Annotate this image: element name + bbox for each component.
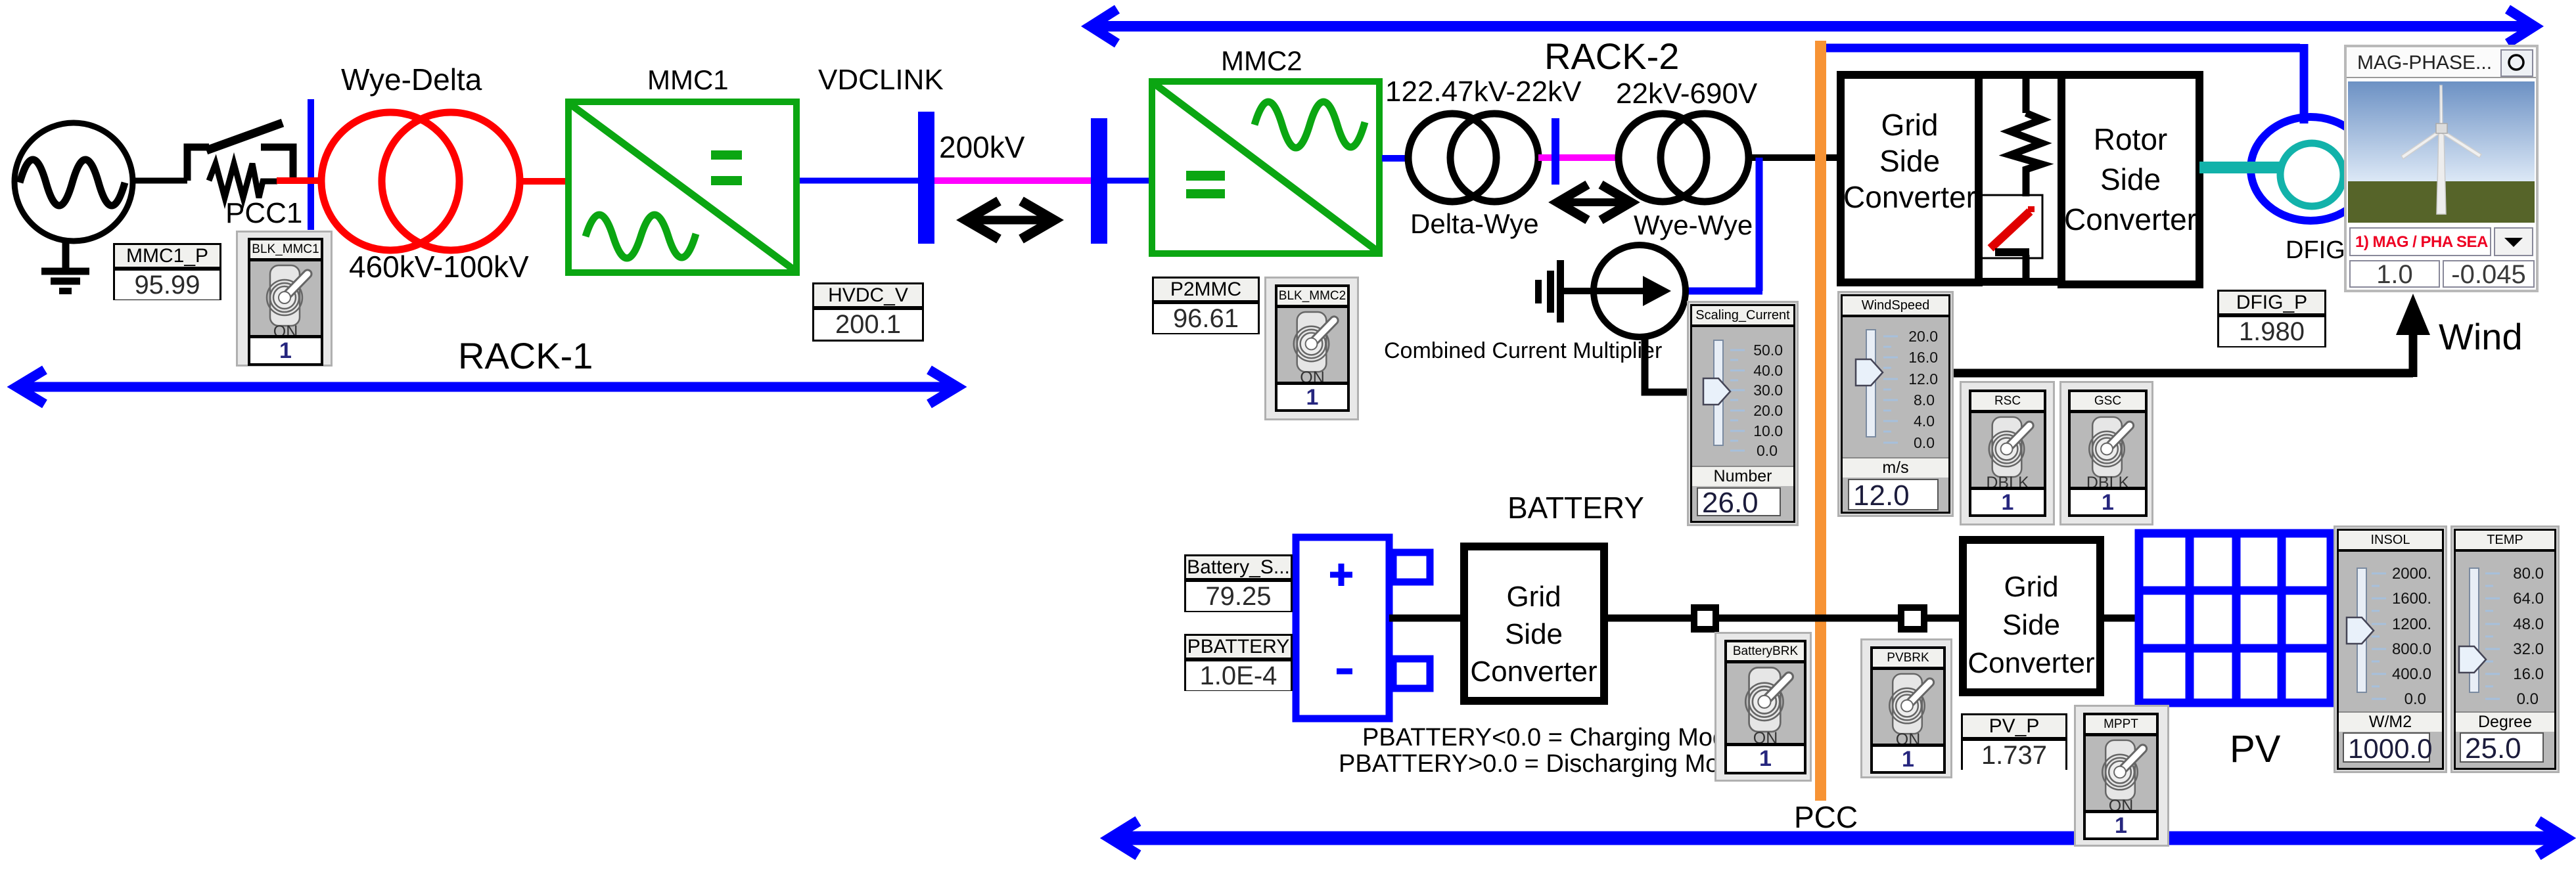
shaft RSC to DFIG <box>2199 143 2343 206</box>
meter P2MMC <box>1152 277 1260 334</box>
orange line PCC <box>1815 41 1826 801</box>
label RACK-1 <box>458 338 593 374</box>
bidirectional arrow DC link <box>966 201 1054 239</box>
slider TEMP <box>2450 525 2560 773</box>
rotor side converter box <box>2061 75 2199 284</box>
crowbar resistor <box>2010 79 2042 196</box>
resistor R source <box>209 164 277 198</box>
slider Scaling_Current <box>1687 301 1799 526</box>
label MMC1 <box>647 66 729 94</box>
battery grid side converter box <box>1464 546 1604 701</box>
slider INSOL <box>2334 525 2447 773</box>
label Grid Side Converter (PV) <box>1967 568 2094 682</box>
svg-text:800.0: 800.0 <box>2392 640 2431 658</box>
wire blue top to DFIG <box>1826 44 2304 123</box>
svg-text:400.0: 400.0 <box>2392 665 2431 683</box>
label Wind <box>2439 319 2523 355</box>
wire red to transformer T1 <box>277 177 323 184</box>
svg-text:16.0: 16.0 <box>1908 349 1938 366</box>
svg-text:48.0: 48.0 <box>2513 615 2544 633</box>
label 122.47kV-22kV <box>1385 78 1581 106</box>
combined current multiplier <box>1569 245 1686 337</box>
label PCC1 <box>225 199 302 228</box>
wire node to PCC <box>1718 615 1898 622</box>
label Rotor Side Converter <box>2064 120 2197 240</box>
RACK-2 bottom bus arrow <box>1111 821 2565 855</box>
crowbar switch red <box>1990 206 2035 279</box>
label RACK-2 <box>1544 38 1679 75</box>
svg-text:1200.: 1200. <box>2392 615 2431 633</box>
bidirectional arrow 22kV <box>1557 185 1631 220</box>
label PCC <box>1794 802 1858 832</box>
meter PV_P <box>1961 713 2067 770</box>
wire converter to node <box>1604 615 1691 622</box>
wire DC magenta <box>934 177 1091 184</box>
label 200kV <box>939 132 1024 162</box>
svg-text:20.0: 20.0 <box>1753 402 1783 419</box>
svg-text:16.0: 16.0 <box>2513 665 2544 683</box>
wire multiplier to slider <box>1645 337 1690 392</box>
panel MAG-PHASE wind turbine <box>2344 45 2539 292</box>
svg-text:0.0: 0.0 <box>1757 442 1778 459</box>
PV array <box>2139 533 2335 703</box>
node breaker battery <box>1694 608 1716 629</box>
svg-text:20.0: 20.0 <box>1908 328 1938 345</box>
crowbar switch box <box>1978 195 2042 258</box>
grid side converter box (wind) <box>1841 75 1979 282</box>
svg-text:50.0: 50.0 <box>1753 342 1783 359</box>
wire source to breaker <box>133 178 187 184</box>
PV grid side converter box <box>1963 540 2100 692</box>
converter MMC1 <box>568 102 796 273</box>
bus PCC1 <box>308 99 314 230</box>
DFIG machine <box>2251 117 2370 221</box>
battery symbol <box>1296 537 1430 719</box>
wire node to PV converter <box>1927 615 1963 622</box>
bus VDCLINK left 200kV <box>918 112 934 244</box>
svg-text:2000.: 2000. <box>2392 565 2431 583</box>
svg-text:10.0: 10.0 <box>1753 422 1783 439</box>
label Grid Side Converter (battery) <box>1470 578 1597 690</box>
label 22kV-690V <box>1616 79 1757 108</box>
label Combined Current Multiplier <box>1384 340 1662 362</box>
label 460kV-100kV <box>349 252 529 282</box>
RACK-2 top bus arrow <box>1090 9 2535 43</box>
svg-text:8.0: 8.0 <box>1914 391 1935 409</box>
label Delta-Wye <box>1410 210 1539 238</box>
svg-text:0.0: 0.0 <box>1914 434 1935 451</box>
wire T3 to grid side converter <box>1749 154 1840 161</box>
RACK-1 bus arrow <box>16 370 957 404</box>
wire MMC1 to bus VDCLINK <box>800 178 920 184</box>
toggle RSC <box>1960 381 2055 525</box>
breaker BRK1 <box>187 123 293 181</box>
label VDCLINK <box>818 66 944 95</box>
toggle GSC <box>2059 381 2153 525</box>
wire battery to converter <box>1389 615 1463 622</box>
svg-text:80.0: 80.0 <box>2513 565 2544 583</box>
label Wye-Delta <box>341 64 482 95</box>
svg-text:0.0: 0.0 <box>2517 690 2539 708</box>
svg-text:0.0: 0.0 <box>2404 690 2426 708</box>
toggle PVBRK <box>1860 638 1952 778</box>
wire converter to PV array <box>2100 615 2139 622</box>
meter HVDC_V <box>812 282 924 342</box>
svg-text:4.0: 4.0 <box>1914 412 1935 430</box>
wire magenta T2 to T3 <box>1538 154 1620 161</box>
label Grid Side Converter (wind) <box>1843 107 1976 215</box>
transformer T1 Wye-Delta 460kV-100kV <box>321 112 520 250</box>
wire MMC2 to T2 <box>1382 155 1410 162</box>
toggle BLK_MMC2 <box>1264 277 1359 420</box>
svg-text:30.0: 30.0 <box>1753 382 1783 399</box>
slider WindSpeed <box>1837 291 1954 517</box>
svg-text:32.0: 32.0 <box>2513 640 2544 658</box>
label MMC2 <box>1221 47 1302 75</box>
transformer T2 Delta-Wye 122.47kV-22kV <box>1408 114 1538 202</box>
bus 22kV <box>1552 118 1559 185</box>
toggle BLK_MMC1 <box>236 231 333 367</box>
toggle BatteryBRK <box>1714 632 1812 782</box>
converter MMC2 <box>1152 81 1379 254</box>
svg-text:12.0: 12.0 <box>1908 370 1938 388</box>
label Wye-Wye <box>1634 212 1753 239</box>
toggle MPPT <box>2074 705 2169 847</box>
wire junction to multiplier <box>1682 158 1762 291</box>
label PV <box>2230 730 2280 769</box>
meter PBATTERY <box>1184 634 1293 691</box>
AC source V1 <box>14 123 133 241</box>
ground of multiplier <box>1535 260 1596 323</box>
meter DFIG_P <box>2217 290 2326 347</box>
wire T1 to MMC1 <box>520 178 566 185</box>
svg-text:1600.: 1600. <box>2392 590 2431 608</box>
ground <box>41 241 89 291</box>
label discharging mode <box>1339 751 1747 776</box>
wire bus to MMC2 <box>1107 178 1150 184</box>
svg-text:64.0: 64.0 <box>2513 590 2544 608</box>
node breaker PV <box>1901 608 1924 629</box>
svg-text:40.0: 40.0 <box>1753 362 1783 379</box>
meter MMC1_P <box>113 243 221 300</box>
bridge lines crowbar bay <box>1979 75 2061 282</box>
label DFIG <box>2286 238 2345 263</box>
label BATTERY <box>1507 493 1644 523</box>
wind speed wire arrow <box>1949 294 2430 377</box>
label charging mode <box>1362 725 1740 750</box>
bus VDCLINK right <box>1091 118 1107 244</box>
transformer T3 Wye-Wye 22kV-690V <box>1619 114 1749 202</box>
meter Battery_S <box>1184 554 1293 612</box>
